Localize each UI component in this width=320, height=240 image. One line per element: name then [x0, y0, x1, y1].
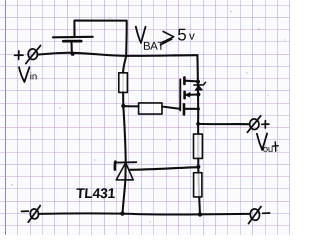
- wire bottom rail: [39, 213, 249, 214]
- junction bottom right branch: [198, 212, 202, 216]
- terminal Vout+: [247, 116, 260, 133]
- label TL431: [76, 188, 115, 198]
- wire inside R1: [122, 73, 124, 106]
- wire Vin+ to MOSFET source (top rail): [38, 53, 198, 56]
- resistor R3: [194, 134, 203, 158]
- wire R1 to junction: [122, 92, 124, 105]
- label Vout: [257, 134, 278, 153]
- scan speckles (decorative): [11, 11, 285, 223]
- battery B1 plate + (long): [53, 36, 93, 39]
- resistor R2: [139, 103, 162, 114]
- op-amp U1 TL431 cathode bar: [114, 161, 136, 163]
- junction Vout+ tap: [196, 122, 200, 126]
- junction gate divider: [121, 104, 125, 108]
- wire TL431 ref to feedback node: [129, 167, 198, 170]
- wire to Vout+ terminal: [198, 123, 249, 125]
- wire battery minus stub: [70, 42, 72, 53]
- junction Q1 body stub dot: [196, 92, 200, 96]
- wire Q1 source stub: [184, 80, 197, 83]
- diode D1 body-diode bar (cathode): [194, 82, 206, 85]
- wire left branch down: [123, 56, 126, 73]
- op-amp U1 TL431 triangle: [116, 163, 133, 180]
- transistor Q1 channel tick middle: [183, 92, 186, 98]
- junction Q1 drain stub dot: [197, 107, 200, 110]
- wire Q1 body stub: [185, 93, 199, 95]
- wire Q1 drain stub: [184, 108, 198, 110]
- label Vin: [19, 67, 37, 82]
- resistor R4: [194, 173, 202, 197]
- label VBAT >= 5V: [136, 27, 195, 50]
- battery B1 plate - (short): [63, 40, 81, 43]
- junction battery/main wire: [71, 52, 75, 56]
- op-amp U1 TL431 cathode tick: [114, 162, 117, 170]
- wire right branch vertical: [197, 55, 200, 214]
- node Vout+ plus sign: [262, 121, 269, 128]
- transistor Q1 gate bar: [179, 80, 181, 111]
- wire battery top loop: [74, 21, 126, 56]
- wire R2 to gate: [162, 107, 180, 109]
- wire inside R3: [197, 134, 199, 159]
- resistor R1: [119, 73, 128, 93]
- terminal Vin-: [28, 206, 40, 223]
- transistor Q1 channel tick top: [183, 77, 186, 84]
- diode D1 triangle: [195, 86, 202, 91]
- symbol greater-equal: [160, 32, 173, 45]
- wire junction to R2: [123, 105, 138, 107]
- junction Q1 source stub dot: [196, 80, 200, 84]
- transistor Q1 channel tick bottom: [183, 104, 186, 114]
- terminal Vout-: [249, 207, 262, 224]
- node Vout- minus sign: [263, 212, 270, 214]
- junction feedback node: [196, 165, 200, 169]
- wire TL431 vertical through: [123, 106, 126, 214]
- node Vin+ plus sign: [15, 51, 24, 60]
- node Vin- minus sign: [22, 210, 29, 212]
- arrow Q1 body (points left): [185, 93, 190, 97]
- junction bottom left branch: [120, 211, 124, 215]
- terminal Vin+: [26, 45, 41, 63]
